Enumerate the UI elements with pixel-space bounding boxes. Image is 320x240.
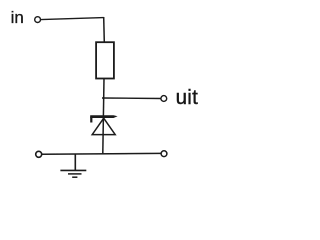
- zener diode cathode hook: [90, 117, 92, 123]
- node in terminal: [35, 17, 41, 23]
- wire corner down to resistor: [103, 17, 106, 43]
- wire in terminal to corner: [41, 18, 104, 20]
- node uit terminal: [161, 96, 167, 102]
- bottom rail wire: [42, 152, 161, 155]
- svg-text:in: in: [11, 8, 24, 27]
- wire resistor bottom to rail: [103, 79, 104, 154]
- svg-text:uit: uit: [176, 86, 199, 109]
- wire junction to uit terminal: [102, 97, 161, 100]
- resistor: [96, 42, 114, 78]
- zener diode triangle: [92, 118, 115, 134]
- node ground-rail right terminal: [161, 151, 167, 157]
- node ground-rail left terminal: [36, 151, 42, 157]
- ground: [60, 155, 86, 178]
- zener diode cathode bar: [90, 115, 117, 118]
